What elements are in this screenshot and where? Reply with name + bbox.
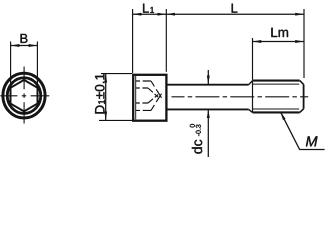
head chamfer circle	[7, 78, 41, 114]
Lm dimension line	[253, 41, 305, 43]
socket hidden row4	[136, 109, 151, 111]
head outline	[133, 75, 166, 121]
label L	[232, 4, 238, 13]
socket cone outer bottom	[151, 94, 162, 111]
socket cone inner top	[148, 88, 158, 97]
vertical centerline of end view	[23, 67, 25, 124]
socket hidden row3	[136, 102, 148, 104]
ext line thread end	[303, 9, 305, 78]
socket cone inner bottom	[148, 95, 158, 103]
thread minor top	[253, 83, 300, 85]
horizontal centerline of end view	[0, 95, 49, 97]
shank top line	[168, 84, 249, 86]
label L1	[143, 4, 154, 13]
socket hidden row1	[136, 80, 151, 82]
thread runout cone bottom	[249, 109, 253, 112]
shank bottom line	[168, 108, 249, 110]
head outer circle	[3, 73, 45, 118]
label D1 plus-minus 0.1	[95, 74, 105, 114]
D1 ext line bottom	[99, 119, 132, 121]
thread runout cone top	[249, 81, 253, 85]
dc dimension line top	[207, 70, 209, 84]
hex socket	[11, 80, 38, 112]
screw axis centerline	[172, 96, 309, 98]
thread major bottom	[253, 111, 300, 113]
socket hidden row2	[136, 87, 148, 89]
head knurl line	[135, 76, 137, 119]
label Lm	[271, 28, 288, 37]
socket cone outer top	[151, 81, 162, 98]
thread minor bottom	[253, 108, 300, 110]
tip chamfer bottom	[300, 109, 304, 113]
D1 dimension line	[105, 74, 107, 120]
L1 dimension line	[133, 13, 167, 15]
ext line head left	[132, 9, 134, 73]
L dimension line	[166, 13, 304, 15]
tip chamfer top	[300, 81, 304, 85]
full thread start line	[252, 81, 254, 113]
ext line head right	[165, 9, 167, 72]
label dc tolerance 0/-0.3	[190, 124, 202, 154]
label M	[306, 136, 318, 146]
tip end face	[303, 84, 305, 108]
D1 ext line top	[101, 73, 132, 75]
M leader line	[280, 112, 324, 150]
dc dimension line bottom	[207, 109, 209, 157]
thread major top	[253, 80, 300, 82]
B extension line left	[10, 42, 12, 89]
B extension line right	[36, 42, 38, 89]
label B	[21, 34, 28, 43]
B dimension line	[11, 45, 38, 47]
ext line full thread start	[252, 38, 254, 80]
